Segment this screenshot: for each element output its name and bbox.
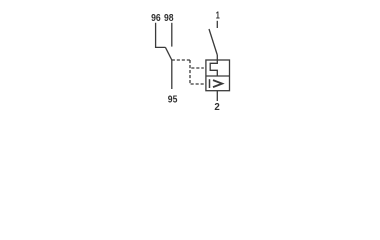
breaker body box U1 [206, 60, 230, 91]
aux contact blade 95-96 [165, 47, 171, 60]
dashed linkage vertical [189, 60, 191, 84]
svg-text:98: 98 [164, 13, 174, 24]
magnetic overcurrent release I> : > chevron [213, 80, 222, 87]
box divider [206, 75, 230, 77]
wire: common 95 [171, 60, 173, 89]
magnetic overcurrent release I> : I bar [209, 79, 211, 88]
wire: NO contact 98 [171, 23, 173, 47]
svg-text:95: 95 [168, 95, 178, 106]
wire: blade to breaker box [216, 55, 218, 60]
main contact blade [209, 29, 217, 55]
wire: NC contact 96 with L-bend [156, 23, 166, 48]
dashed linkage to thermal release [191, 67, 204, 69]
dashed linkage blade to trip line [172, 59, 190, 61]
wire: terminal 2 stub [216, 91, 218, 101]
wire: terminal 1 stub [216, 21, 218, 28]
svg-text:1: 1 [216, 11, 220, 22]
dashed linkage to magnetic release [191, 83, 204, 85]
svg-text:2: 2 [214, 102, 220, 113]
thermal overload release element [210, 60, 217, 76]
svg-text:96: 96 [151, 13, 161, 24]
